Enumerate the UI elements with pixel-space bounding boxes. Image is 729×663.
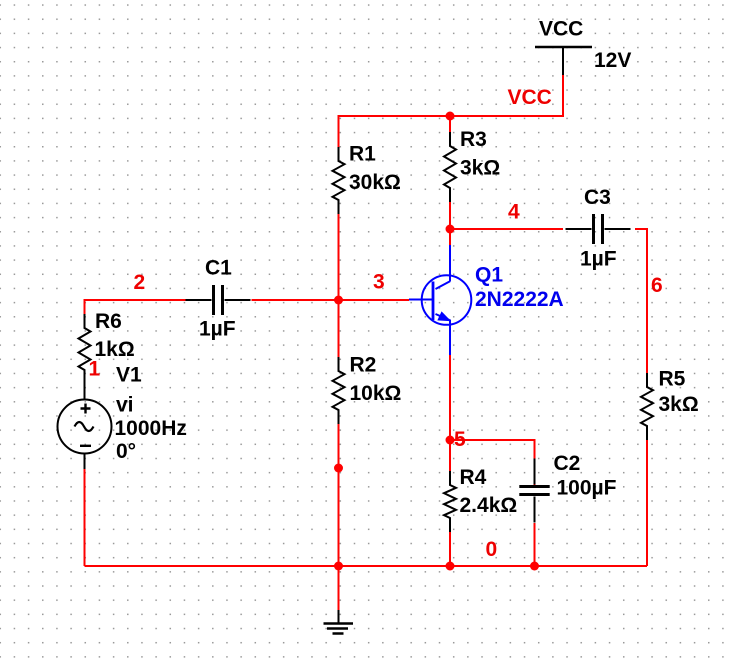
svg-text:C2: C2 (554, 452, 581, 475)
svg-text:0: 0 (486, 538, 498, 561)
wire node 4 to C3 (450, 228, 563, 230)
svg-text:1µF: 1µF (199, 318, 236, 341)
svg-text:3kΩ: 3kΩ (659, 393, 699, 416)
AC source V1 (58, 400, 112, 470)
svg-text:1µF: 1µF (580, 248, 617, 271)
svg-text:1: 1 (89, 358, 101, 381)
svg-text:100µF: 100µF (557, 477, 617, 500)
svg-text:C3: C3 (584, 186, 611, 209)
svg-text:0°: 0° (116, 440, 136, 463)
svg-text:1000Hz: 1000Hz (115, 417, 187, 440)
wire node 3 horizontal right (C1 to base) (252, 299, 410, 301)
wire R4 bottom to ground rail (449, 532, 451, 566)
svg-text:3kΩ: 3kΩ (460, 157, 500, 180)
svg-text:R2: R2 (350, 354, 377, 377)
junction ground rail / C2 (530, 562, 539, 571)
resistor R6 (79, 314, 91, 400)
power supply VCC symbol (535, 47, 592, 75)
resistor R1 (333, 147, 345, 214)
wire ground rail net 0 (85, 565, 648, 567)
svg-text:Q1: Q1 (475, 264, 503, 287)
junction node 5 (446, 436, 455, 445)
junction on R2 branch (334, 464, 343, 473)
junction node 3 (334, 296, 343, 305)
wire emitter to node 5 and R4 (449, 355, 451, 471)
wire node 5 to C2 top (450, 440, 535, 486)
svg-text:3: 3 (373, 271, 385, 294)
capacitor C2 (519, 459, 549, 523)
resistor R2 (333, 357, 345, 424)
wire R3 bottom to node 4 and collector (449, 202, 451, 245)
wire R2 bottom to ground rail (338, 424, 340, 566)
svg-text:2.4kΩ: 2.4kΩ (460, 494, 518, 517)
wire ground stub (338, 566, 340, 610)
wire node 3 horizontal left (net 2 to C1) (85, 300, 186, 314)
junction ground rail / R4 (446, 562, 455, 571)
wire R5 bottom to ground rail (646, 440, 648, 566)
transistor Q1 2N2222A (409, 245, 471, 355)
svg-text:5: 5 (454, 428, 466, 451)
svg-text:6: 6 (651, 274, 663, 297)
svg-text:10kΩ: 10kΩ (350, 382, 402, 405)
svg-text:4: 4 (508, 201, 520, 224)
wire C2 bottom to ground rail (534, 523, 536, 566)
svg-text:V1: V1 (116, 364, 142, 387)
resistor R3 (444, 132, 456, 202)
junction VCC rail / R3 (446, 112, 455, 121)
resistor R5 (641, 373, 653, 440)
ground (324, 610, 354, 634)
svg-text:VCC: VCC (508, 86, 552, 109)
svg-text:1kΩ: 1kΩ (95, 338, 135, 361)
svg-text:R3: R3 (460, 128, 487, 151)
svg-text:30kΩ: 30kΩ (349, 171, 401, 194)
capacitor C1 (186, 285, 251, 315)
svg-text:R6: R6 (95, 310, 122, 333)
svg-text:2N2222A: 2N2222A (475, 288, 564, 311)
svg-text:2: 2 (134, 271, 146, 294)
capacitor C3 (566, 214, 631, 244)
wire C3 to R5 top (net 6) (635, 229, 647, 373)
wire V1 bottom to ground rail (84, 469, 86, 566)
svg-text:12V: 12V (594, 49, 631, 72)
svg-text:R4: R4 (460, 466, 487, 489)
svg-text:R5: R5 (659, 368, 686, 391)
svg-text:R1: R1 (349, 143, 376, 166)
wire R3 top from rail (449, 116, 451, 132)
wire VCC top rail net VCC (339, 74, 564, 147)
wire R1 bottom to node 3 and R2 top (338, 214, 340, 357)
junction node 4 (446, 225, 455, 234)
resistor R4 (444, 471, 456, 532)
svg-text:C1: C1 (205, 257, 232, 280)
svg-text:VCC: VCC (539, 18, 583, 41)
svg-text:vi: vi (116, 394, 134, 417)
junction ground rail / ground stub (334, 562, 343, 571)
